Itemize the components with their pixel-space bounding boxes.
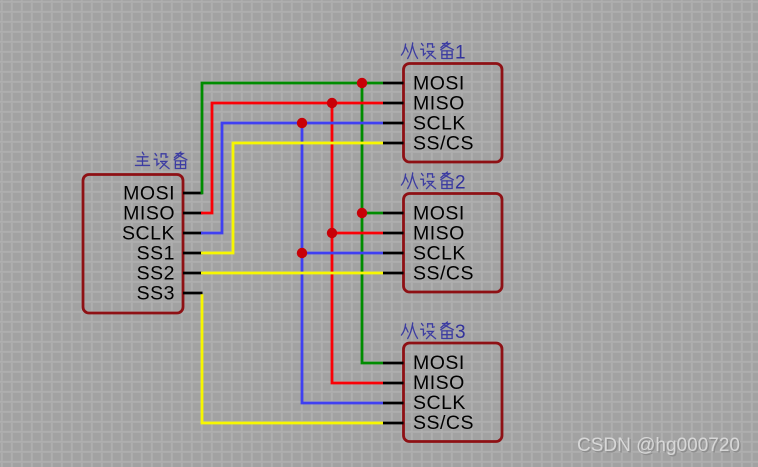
slave1 pin stub SS/CS	[383, 142, 404, 145]
wire SS2 yellow	[201, 272, 383, 275]
junction dot red at slave2 MISO	[327, 228, 337, 238]
slave2 block 从设备2	[404, 194, 503, 293]
svg-text:SS/CS: SS/CS	[413, 412, 474, 434]
svg-text:SS/CS: SS/CS	[413, 133, 474, 155]
slave3 title 从设备3	[401, 322, 453, 339]
wire MISO red main run	[201, 103, 383, 213]
slave2 pin stub SS/CS	[383, 272, 404, 275]
slave1 pin stub MOSI	[383, 82, 404, 85]
junction dot green at slave2 MOSI	[357, 208, 367, 218]
svg-text:1: 1	[455, 43, 466, 64]
svg-text:MISO: MISO	[413, 93, 465, 115]
slave1 title 从设备1	[401, 42, 453, 59]
master pin stub MOSI	[183, 192, 203, 195]
master pin stub MISO	[183, 212, 203, 215]
wire SCLK blue spur to slave2	[302, 252, 383, 255]
svg-text:SS3: SS3	[137, 283, 175, 305]
slave2 pin stub MISO	[383, 232, 404, 235]
master title 主设备	[135, 152, 186, 169]
wire MISO red spur to slave2	[332, 232, 383, 235]
svg-text:MOSI: MOSI	[123, 183, 175, 205]
svg-text:SCLK: SCLK	[413, 113, 466, 135]
svg-text:SCLK: SCLK	[413, 392, 466, 414]
wire SCLK blue vertical branch	[302, 123, 383, 403]
slave2 pin stub SCLK	[383, 252, 404, 255]
junction dot blue at slave2 SCLK	[297, 248, 307, 258]
svg-text:SS2: SS2	[137, 263, 175, 285]
svg-text:3: 3	[455, 322, 466, 343]
slave3 pin stub SS/CS	[383, 422, 404, 425]
slave2 title 从设备2	[401, 172, 453, 189]
svg-text:SCLK: SCLK	[122, 223, 175, 245]
wire MOSI green main run	[202, 83, 383, 194]
svg-text:MISO: MISO	[413, 223, 465, 245]
wire MOSI green spur to slave2	[362, 212, 383, 215]
slave3 pin stub MISO	[383, 382, 404, 385]
slave1 block 从设备1	[404, 64, 503, 163]
svg-text:MOSI: MOSI	[413, 203, 465, 225]
master pin stub SS2	[183, 272, 203, 275]
junction dot red at slave1 MISO	[327, 98, 337, 108]
slave1 pin stub SCLK	[383, 122, 404, 125]
svg-text:MOSI: MOSI	[413, 73, 465, 95]
wire SCLK blue main run	[201, 123, 383, 233]
svg-text:SCLK: SCLK	[413, 243, 466, 265]
junction dot blue at slave1 SCLK	[297, 118, 307, 128]
svg-text:CSDN @hg000720: CSDN @hg000720	[577, 435, 740, 456]
slave1 pin stub MISO	[383, 102, 404, 105]
junction dot green at slave1 MOSI	[357, 78, 367, 88]
wire MISO red vertical branch	[332, 103, 383, 383]
svg-text:SS1: SS1	[137, 243, 175, 265]
svg-text:MISO: MISO	[413, 372, 465, 394]
master pin stub SS1	[183, 252, 203, 255]
master pin stub SS3	[183, 292, 203, 295]
slave3 pin stub SCLK	[383, 402, 404, 405]
master block 主设备	[83, 175, 183, 314]
slave3 block 从设备3	[404, 343, 503, 442]
svg-text:SS/CS: SS/CS	[413, 263, 474, 285]
wire SS3 yellow	[202, 294, 383, 423]
svg-text:MOSI: MOSI	[413, 352, 465, 374]
slave2 pin stub MOSI	[383, 212, 404, 215]
wire MOSI green vertical branch	[362, 83, 383, 363]
slave3 pin stub MOSI	[383, 362, 404, 365]
master pin stub SCLK	[183, 232, 203, 235]
svg-text:MISO: MISO	[123, 203, 175, 225]
wire SS1 yellow	[201, 143, 383, 253]
svg-text:2: 2	[455, 173, 466, 194]
